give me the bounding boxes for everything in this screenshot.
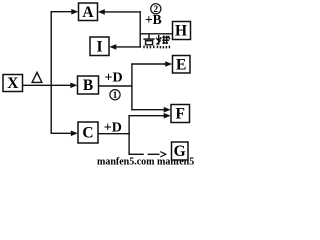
watermark manfen5.com — [97, 157, 194, 168]
node G box — [172, 142, 189, 160]
label +B — [145, 12, 162, 27]
wire into I with arrow — [109, 44, 141, 50]
wire into E with arrow — [131, 61, 172, 67]
svg-text:F: F — [175, 106, 184, 123]
node E box — [173, 56, 191, 74]
node B box — [78, 76, 99, 94]
svg-text:C: C — [82, 125, 93, 142]
label ran (ignite char 2) — [156, 35, 170, 48]
wire to B with arrow — [51, 83, 77, 89]
svg-text:B: B — [83, 77, 93, 94]
svg-text:E: E — [176, 56, 186, 73]
H branch vertical — [139, 11, 141, 47]
wire to C with arrow — [51, 131, 78, 137]
branch vertical (left trunk) — [50, 12, 52, 134]
svg-text:1: 1 — [113, 91, 118, 101]
label circled 2 — [151, 4, 161, 16]
svg-text:I: I — [96, 38, 102, 55]
svg-text:+B: +B — [145, 12, 162, 27]
label dian (ignite char 1) — [143, 35, 154, 49]
wire from H box to vertical — [140, 33, 173, 35]
wire to A with arrow — [51, 9, 79, 15]
svg-text:A: A — [82, 4, 94, 21]
wire into F upper with arrow — [131, 107, 170, 113]
C junction vertical — [128, 115, 130, 155]
wire X to branch vertical — [23, 84, 52, 86]
node F box — [171, 105, 190, 123]
node H box — [173, 22, 191, 40]
svg-text:+D: +D — [105, 70, 123, 85]
node I box — [90, 37, 109, 56]
B junction vertical — [131, 63, 133, 110]
label +D (B row) — [105, 70, 123, 85]
node A box — [79, 3, 98, 21]
svg-text:G: G — [174, 143, 186, 160]
node X box — [3, 75, 23, 93]
dashed wire toward G with open arrow — [129, 152, 166, 157]
node C box — [78, 122, 98, 143]
wire from C to F/G junction — [98, 133, 130, 135]
wire from H trunk into A right side with arrow — [98, 9, 141, 15]
svg-text:X: X — [7, 75, 19, 92]
label circled 1 — [110, 90, 120, 102]
svg-text:+D: +D — [104, 121, 122, 136]
triangle heat symbol — [32, 72, 42, 82]
wire from B to E/F junction — [99, 85, 133, 87]
label +D (C row) — [104, 121, 122, 136]
wire into F lower with arrow — [129, 113, 171, 119]
svg-text:H: H — [175, 23, 187, 40]
